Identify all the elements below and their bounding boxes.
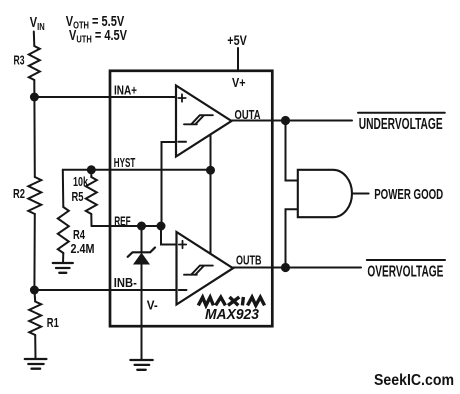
pin label OUTB bbox=[236, 252, 262, 267]
wire node INB down to R1 bbox=[33, 290, 36, 302]
pin label INB- bbox=[114, 275, 137, 290]
pin label HYST bbox=[114, 155, 136, 170]
ground below R4 bbox=[53, 263, 73, 273]
svg-text:INA+: INA+ bbox=[114, 82, 137, 97]
pin label OUTA bbox=[235, 107, 261, 122]
resistor R1 bbox=[29, 302, 41, 336]
svg-text:UNDERVOLTAGE: UNDERVOLTAGE bbox=[359, 116, 443, 133]
op-amp B hysteresis symbol bbox=[184, 266, 213, 275]
node OUTA junction dot bbox=[281, 116, 290, 125]
svg-text:R3: R3 bbox=[14, 53, 25, 68]
ground below V- bbox=[130, 360, 152, 370]
resistor R2 bbox=[28, 177, 41, 214]
wire INB- net bbox=[34, 289, 176, 291]
watermark SeekIC.com bbox=[374, 372, 454, 389]
AND gate G1 bbox=[298, 170, 352, 217]
wire REF net bbox=[92, 225, 162, 227]
svg-text:R4: R4 bbox=[73, 227, 86, 242]
wire OUTA net bbox=[232, 120, 353, 122]
wire R5 to REF bbox=[90, 214, 92, 226]
svg-text:R1: R1 bbox=[47, 315, 59, 330]
wire op-amp A minus feedback bbox=[162, 142, 177, 226]
svg-text:MAX923: MAX923 bbox=[205, 306, 260, 323]
threshold note VUTH bbox=[69, 26, 127, 44]
svg-text:SeekIC.com: SeekIC.com bbox=[374, 372, 454, 389]
zener diode D1 wire from REF bbox=[141, 226, 143, 253]
resistor R5 10k bbox=[86, 177, 97, 214]
pin label V+ bbox=[232, 75, 246, 90]
MAXIM logo bbox=[198, 297, 264, 305]
node OUTB junction dot bbox=[281, 263, 290, 272]
label POWER GOOD bbox=[374, 187, 443, 203]
node INB junction dot bbox=[30, 286, 39, 295]
wire zener to ground bbox=[141, 264, 143, 360]
wire op-amp A edge down through HYST to op-amp B edge bbox=[210, 134, 212, 253]
svg-text:R5: R5 bbox=[72, 189, 84, 204]
node HYST/R5 junction dot bbox=[87, 165, 96, 174]
ground below R1 bbox=[25, 359, 47, 369]
resistor R4 bbox=[58, 207, 69, 253]
op-amp comparator A bbox=[176, 86, 232, 157]
wire AND gate output bbox=[352, 193, 369, 195]
wire OUTB to AND gate lower input bbox=[286, 209, 298, 267]
wire +5V lead bbox=[237, 48, 239, 70]
node HYST end junction dot bbox=[206, 166, 215, 175]
node VIN label bbox=[30, 14, 45, 32]
wire HYST down to R4 bbox=[62, 170, 65, 207]
op-amp comparator B bbox=[177, 232, 234, 305]
resistor R3 bbox=[29, 46, 40, 80]
wire R2 to node INB bbox=[33, 214, 35, 290]
pin label REF bbox=[114, 213, 131, 228]
node REF/feedback junction dot bbox=[157, 222, 166, 231]
svg-text:OVERVOLTAGE: OVERVOLTAGE bbox=[367, 264, 443, 281]
label OVERVOLTAGE with overbar bbox=[367, 259, 445, 261]
wire REF step to op-amp B plus input bbox=[161, 226, 177, 245]
svg-text:2.4M: 2.4M bbox=[71, 241, 95, 256]
IC part number MAX923 bbox=[205, 306, 260, 323]
wire HYST net bbox=[63, 169, 211, 171]
IC U1 MAX923 box bbox=[110, 71, 272, 326]
op-amp A hysteresis symbol bbox=[184, 115, 213, 124]
svg-text:POWER GOOD: POWER GOOD bbox=[374, 187, 443, 203]
wire R4 to ground bbox=[62, 253, 64, 263]
svg-text:INB-: INB- bbox=[114, 275, 137, 290]
op-amp A minus input mark bbox=[178, 141, 186, 143]
svg-text:+5V: +5V bbox=[227, 33, 247, 48]
pin label V- bbox=[147, 298, 158, 313]
wire dot to R5 bbox=[90, 170, 92, 177]
wire R3 to node A bbox=[33, 80, 35, 97]
wire OUTA to AND gate upper input bbox=[286, 121, 298, 181]
wire R1 to ground bbox=[34, 335, 36, 359]
threshold note VOTH bbox=[66, 12, 125, 30]
svg-text:HYST: HYST bbox=[114, 155, 136, 170]
op-amp A plus input mark bbox=[178, 94, 185, 101]
zener diode D1 cathode bar bbox=[128, 248, 155, 257]
svg-text:10k: 10k bbox=[73, 174, 89, 189]
svg-text:V-: V- bbox=[147, 298, 158, 313]
wire VIN lead bbox=[33, 32, 36, 47]
svg-text:REF: REF bbox=[114, 213, 131, 228]
svg-text:OUTB: OUTB bbox=[236, 252, 262, 267]
zener diode D1 anode triangle bbox=[133, 253, 150, 265]
svg-text:V+: V+ bbox=[232, 75, 246, 90]
svg-text:R2: R2 bbox=[13, 186, 25, 201]
wire OUTB net bbox=[233, 267, 361, 269]
label UNDERVOLTAGE with overbar bbox=[358, 112, 445, 114]
wire INA+ net bbox=[34, 96, 176, 98]
op-amp B plus input mark bbox=[179, 241, 186, 248]
pin label INA+ bbox=[114, 82, 137, 97]
node A junction dot bbox=[30, 93, 39, 102]
node REF/zener junction dot bbox=[137, 222, 146, 231]
wire node A down to R2 bbox=[33, 97, 35, 177]
op-amp B minus input mark bbox=[179, 289, 187, 291]
